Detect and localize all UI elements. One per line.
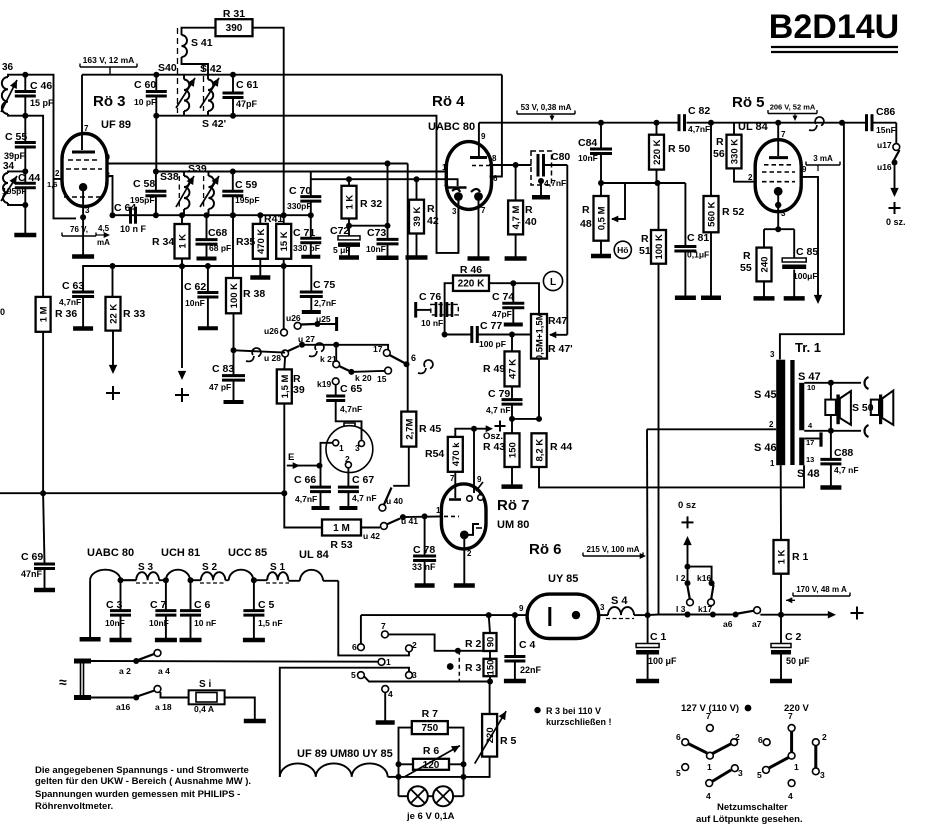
R47 wiper arrow bbox=[550, 334, 567, 336]
svg-text:1: 1 bbox=[770, 459, 775, 468]
svg-text:3: 3 bbox=[738, 768, 743, 778]
svg-text:S40: S40 bbox=[158, 62, 177, 74]
contact 6 and 17 bbox=[404, 361, 410, 367]
svg-text:100 pF: 100 pF bbox=[479, 339, 506, 349]
svg-text:UF 89 UM80 UY 85: UF 89 UM80 UY 85 bbox=[297, 748, 393, 760]
svg-text:6: 6 bbox=[411, 353, 416, 363]
svg-text:C 65: C 65 bbox=[340, 383, 362, 395]
svg-text:C 70: C 70 bbox=[289, 185, 311, 197]
svg-text:5: 5 bbox=[351, 670, 356, 680]
svg-text:C 79: C 79 bbox=[488, 388, 510, 400]
resistor R31 bbox=[216, 19, 253, 36]
jack symbol u28 bbox=[246, 356, 254, 361]
svg-text:34: 34 bbox=[3, 161, 15, 172]
svg-text:u17: u17 bbox=[877, 140, 892, 150]
svg-text:C 60: C 60 bbox=[134, 79, 156, 91]
svg-text:10nF: 10nF bbox=[149, 618, 169, 628]
wire row 266 bbox=[113, 265, 312, 267]
Ro3 grids bbox=[68, 159, 100, 161]
capacitor C67 bbox=[347, 468, 349, 487]
svg-text:R41: R41 bbox=[264, 213, 283, 225]
svg-text:UL 84: UL 84 bbox=[738, 121, 769, 133]
switch a6 a7 bbox=[733, 612, 739, 618]
dashed gang S38 bbox=[178, 176, 180, 209]
svg-text:2: 2 bbox=[769, 420, 774, 429]
resistor R3 bbox=[484, 659, 497, 676]
coil S4 bbox=[599, 614, 608, 616]
svg-text:3: 3 bbox=[781, 209, 786, 218]
svg-text:1: 1 bbox=[386, 657, 391, 667]
resistor R33 bbox=[112, 266, 114, 297]
capacitor C84 bbox=[598, 120, 604, 126]
Ro4 grid2 bbox=[453, 179, 458, 186]
tube Ro7 UM80 bbox=[441, 484, 486, 549]
svg-text:C 75: C 75 bbox=[313, 279, 335, 291]
svg-text:C 81: C 81 bbox=[687, 232, 709, 244]
resistor R2 bbox=[489, 615, 490, 633]
svg-text:2: 2 bbox=[444, 179, 449, 188]
svg-text:0 sz: 0 sz bbox=[678, 500, 696, 511]
tube Ro5 UL84 bbox=[755, 140, 801, 212]
wire R31 left bbox=[182, 28, 216, 35]
resistor R50 bbox=[654, 120, 660, 126]
UL84 heater bump bbox=[288, 580, 300, 582]
Ro4 cathodes bbox=[452, 189, 460, 192]
svg-text:S i: S i bbox=[199, 679, 211, 690]
svg-text:C 6: C 6 bbox=[194, 599, 211, 611]
wire R51 drop and bus bbox=[659, 264, 688, 615]
svg-text:3: 3 bbox=[452, 207, 457, 216]
svg-text:k17: k17 bbox=[698, 604, 712, 614]
svg-text:6: 6 bbox=[352, 642, 357, 652]
coil S1 bbox=[267, 572, 288, 580]
Ro5 cathode bbox=[774, 187, 783, 196]
svg-text:51: 51 bbox=[639, 245, 651, 257]
svg-text:1 K: 1 K bbox=[777, 549, 788, 564]
svg-text:7: 7 bbox=[781, 130, 786, 139]
svg-text:220 K: 220 K bbox=[458, 279, 485, 290]
svg-text:auf Lötpunkte gesehen.: auf Lötpunkte gesehen. bbox=[696, 814, 803, 825]
wire bus 163V bbox=[82, 74, 502, 76]
svg-text:1: 1 bbox=[436, 506, 441, 515]
svg-text:C 62: C 62 bbox=[184, 281, 206, 293]
svg-text:195pF: 195pF bbox=[235, 195, 260, 205]
svg-text:C 61: C 61 bbox=[236, 79, 258, 91]
capacitor C1 electrolytic bbox=[645, 612, 651, 618]
svg-text:C 83: C 83 bbox=[212, 363, 234, 375]
svg-text:R: R bbox=[743, 250, 751, 262]
Ro7 pin1 row bbox=[403, 515, 442, 518]
svg-text:k 21: k 21 bbox=[320, 354, 337, 364]
capacitor C2 electrolytic bbox=[780, 615, 782, 644]
wire contact2 from UL84 chain bbox=[338, 581, 409, 656]
R48 wiper bbox=[601, 183, 625, 219]
svg-text:R 31: R 31 bbox=[223, 8, 245, 20]
lamp rails bbox=[399, 728, 412, 797]
svg-text:UY 85: UY 85 bbox=[548, 573, 578, 585]
tube Ro4 UABC80 bbox=[446, 142, 491, 210]
svg-text:2,7nF: 2,7nF bbox=[314, 298, 336, 308]
svg-text:5: 5 bbox=[676, 768, 681, 778]
wire R38 u28 bbox=[234, 350, 285, 352]
R5 arrow bbox=[475, 711, 506, 763]
svg-text:Die angegebenen Spannungs -: Die angegebenen Spannungs - und Stromwer… bbox=[35, 765, 249, 776]
svg-text:C73: C73 bbox=[367, 227, 386, 239]
svg-text:R 34: R 34 bbox=[152, 236, 174, 248]
svg-text:3: 3 bbox=[770, 350, 775, 359]
svg-text:Spannungen wurden gemessen: Spannungen wurden gemessen mit PHILIPS - bbox=[35, 789, 240, 800]
svg-text:6: 6 bbox=[758, 735, 763, 745]
svg-text:10 n F: 10 n F bbox=[120, 224, 147, 234]
resistor R51 bbox=[658, 183, 660, 230]
svg-text:C86: C86 bbox=[876, 106, 895, 118]
resistor R34 bbox=[181, 215, 183, 224]
svg-text:R35: R35 bbox=[236, 236, 255, 248]
svg-text:R 38: R 38 bbox=[243, 288, 265, 300]
coil S41 bbox=[182, 35, 188, 57]
switch k19 C65 bbox=[332, 378, 339, 385]
svg-text:2: 2 bbox=[748, 173, 753, 182]
wire R47 down bbox=[538, 359, 540, 419]
svg-text:R 44: R 44 bbox=[550, 441, 572, 453]
dashed gang S39 bbox=[203, 176, 205, 209]
svg-text:S 3: S 3 bbox=[138, 562, 153, 573]
svg-text:47 pF: 47 pF bbox=[209, 382, 231, 392]
heater bus left bbox=[361, 614, 527, 616]
svg-text:1 K: 1 K bbox=[345, 195, 356, 210]
note R3 110V bbox=[534, 707, 540, 713]
svg-text:B2D14U: B2D14U bbox=[769, 8, 899, 46]
svg-text:C68: C68 bbox=[208, 227, 227, 239]
svg-text:UL 84: UL 84 bbox=[299, 549, 330, 561]
Ro3 plate bbox=[81, 75, 83, 150]
wire R36 down to bus493 bbox=[42, 332, 44, 493]
svg-text:2,7M: 2,7M bbox=[404, 418, 415, 439]
wire contact1 row bbox=[378, 659, 385, 666]
capacitor C5 bbox=[253, 580, 255, 610]
svg-text:48: 48 bbox=[580, 218, 592, 230]
svg-text:100 K: 100 K bbox=[229, 283, 240, 308]
wire grid wire y179 bbox=[311, 178, 453, 180]
svg-text:10nF: 10nF bbox=[578, 153, 598, 163]
svg-text:220 K: 220 K bbox=[652, 139, 663, 164]
wire bus493 bbox=[0, 492, 284, 494]
Osz plus arrow bbox=[474, 428, 487, 430]
svg-text:S 45: S 45 bbox=[754, 389, 777, 401]
wire R45 to u40 bbox=[393, 447, 409, 486]
svg-text:330 pF: 330 pF bbox=[293, 243, 320, 253]
svg-text:15 K: 15 K bbox=[279, 231, 290, 251]
svg-text:1 M: 1 M bbox=[333, 523, 350, 534]
Hoe circle bbox=[614, 241, 631, 258]
svg-text:Röhrenvoltmeter.: Röhrenvoltmeter. bbox=[35, 801, 113, 812]
resistor R7 bbox=[412, 721, 448, 734]
wire a2 row cont bbox=[161, 658, 379, 661]
svg-text:R 36: R 36 bbox=[55, 308, 77, 320]
wire Tr1 primary top to HT bbox=[780, 123, 844, 360]
svg-text:4,7nF: 4,7nF bbox=[544, 178, 566, 188]
svg-text:R 5: R 5 bbox=[500, 735, 517, 747]
Ro4 dashes bbox=[472, 165, 489, 167]
wire R39 down bus493 bbox=[283, 404, 285, 494]
svg-text:Osz.: Osz. bbox=[483, 431, 503, 442]
svg-text:750: 750 bbox=[421, 723, 438, 734]
svg-text:Rö 4: Rö 4 bbox=[432, 93, 465, 110]
svg-text:C84: C84 bbox=[578, 137, 597, 149]
svg-text:2: 2 bbox=[412, 640, 417, 650]
capacitor C81 bbox=[684, 183, 686, 247]
svg-text:UCH 81: UCH 81 bbox=[161, 547, 200, 559]
capacitor C4 bbox=[514, 615, 516, 656]
svg-text:R47: R47 bbox=[548, 315, 567, 327]
svg-text:a6: a6 bbox=[723, 619, 733, 629]
svg-text:UM 80: UM 80 bbox=[497, 519, 529, 531]
wire HT bus bbox=[479, 122, 679, 124]
svg-text:S 4: S 4 bbox=[611, 595, 628, 607]
Ro4 pin8 wire bbox=[489, 164, 532, 166]
svg-text:S 48: S 48 bbox=[797, 468, 820, 480]
svg-text:C88: C88 bbox=[834, 447, 853, 459]
switch u17 u16 bbox=[895, 123, 897, 144]
svg-text:a 18: a 18 bbox=[155, 702, 172, 712]
svg-text:53 V, 0,38 mA: 53 V, 0,38 mA bbox=[521, 103, 572, 112]
svg-text:56: 56 bbox=[713, 148, 725, 160]
Ro4 pin7 ground bbox=[478, 200, 480, 257]
wire plus arrow right bbox=[778, 612, 784, 618]
svg-text:C80: C80 bbox=[551, 151, 570, 163]
capacitor C80 bbox=[531, 151, 552, 185]
svg-text:3: 3 bbox=[85, 206, 90, 215]
wire R31 right drop bbox=[253, 28, 284, 224]
svg-text:R 49: R 49 bbox=[483, 363, 505, 375]
svg-text:C 3: C 3 bbox=[106, 599, 123, 611]
wire row183 bbox=[601, 182, 685, 184]
svg-text:C 69: C 69 bbox=[21, 551, 43, 563]
svg-text:R 3: R 3 bbox=[465, 662, 482, 674]
wire pin6 down bbox=[566, 165, 568, 335]
capacitor C70 bbox=[310, 172, 312, 197]
svg-text:0 sz.: 0 sz. bbox=[886, 217, 906, 227]
coil S38 bbox=[184, 176, 190, 209]
wire R56 to pin2 bbox=[734, 168, 756, 181]
capacitor C76 bbox=[431, 304, 459, 315]
capacitor C55 bbox=[24, 116, 26, 143]
svg-text:Rö 6: Rö 6 bbox=[529, 541, 562, 558]
wire secondary top bbox=[804, 382, 861, 384]
label 206V bbox=[767, 110, 769, 114]
svg-text:je 6 V 0,1A: je 6 V 0,1A bbox=[406, 811, 455, 822]
capacitor C64 bbox=[129, 207, 132, 224]
Ro5 plate pin7 bbox=[775, 120, 781, 126]
wire R46 left bbox=[445, 283, 453, 334]
svg-text:S39: S39 bbox=[188, 163, 207, 175]
capacitor C59 bbox=[230, 169, 236, 175]
label 215V bbox=[582, 553, 584, 557]
svg-text:Netzumschalter: Netzumschalter bbox=[717, 802, 788, 813]
resistor R54 bbox=[448, 437, 463, 472]
svg-text:47nF: 47nF bbox=[21, 569, 43, 579]
svg-text:u 40: u 40 bbox=[386, 496, 403, 506]
capacitor C44 bbox=[24, 171, 26, 183]
svg-text:8: 8 bbox=[492, 154, 497, 163]
svg-text:215 V, 100 mA: 215 V, 100 mA bbox=[586, 545, 639, 554]
capacitor C85 electrolytic bbox=[793, 229, 795, 258]
svg-text:S 2: S 2 bbox=[202, 562, 217, 573]
capacitor C73 bbox=[387, 164, 389, 226]
resistor R44 bbox=[532, 433, 547, 467]
capacitor C60 bbox=[153, 72, 159, 78]
svg-text:195pF: 195pF bbox=[2, 186, 27, 196]
svg-text:1,5 M: 1,5 M bbox=[280, 374, 291, 398]
svg-text:a7: a7 bbox=[752, 619, 762, 629]
capacitor C77 series bbox=[445, 334, 472, 336]
svg-text:R: R bbox=[716, 136, 724, 148]
lamp 1 bbox=[399, 795, 409, 797]
wire bus 615 right bbox=[648, 614, 659, 617]
svg-text:u26: u26 bbox=[264, 326, 279, 336]
svg-text:150: 150 bbox=[508, 442, 519, 458]
lamp 2 bbox=[428, 795, 433, 797]
svg-text:10nF: 10nF bbox=[185, 298, 205, 308]
Ro7 pin7 bbox=[454, 472, 456, 498]
svg-text:4,7nF: 4,7nF bbox=[340, 404, 362, 414]
wire grid2 Ro3 bbox=[25, 75, 62, 179]
svg-text:C 59: C 59 bbox=[235, 179, 257, 191]
label 3mA bbox=[805, 162, 807, 166]
switch k16 k17 bbox=[688, 567, 712, 584]
svg-text:4,7nF: 4,7nF bbox=[295, 494, 317, 504]
svg-text:10: 10 bbox=[807, 383, 815, 392]
wire contact3 from heater bracket bbox=[280, 668, 409, 777]
jack symbol anode bbox=[809, 125, 817, 130]
wire R32 bottom bbox=[349, 219, 388, 226]
svg-text:5: 5 bbox=[757, 770, 762, 780]
svg-text:C 77: C 77 bbox=[480, 320, 502, 332]
svg-text:68 pF: 68 pF bbox=[209, 243, 231, 253]
wire u26 drop bbox=[283, 266, 285, 329]
svg-text:R 53: R 53 bbox=[330, 539, 352, 551]
label 76V 4,5mA bbox=[61, 233, 63, 237]
svg-text:k19: k19 bbox=[317, 379, 331, 389]
svg-text:100 K: 100 K bbox=[654, 234, 665, 259]
svg-text:R 6: R 6 bbox=[423, 745, 440, 757]
svg-text:R 3 bei 110 V: R 3 bei 110 V bbox=[546, 706, 601, 716]
svg-text:R 50: R 50 bbox=[668, 143, 690, 155]
svg-text:4: 4 bbox=[706, 791, 711, 801]
svg-text:42: 42 bbox=[427, 215, 439, 227]
wire bus A pin9 bbox=[106, 163, 408, 165]
svg-text:33 nF: 33 nF bbox=[412, 562, 436, 572]
contact circles 2 3 bbox=[406, 645, 413, 652]
svg-text:C 5: C 5 bbox=[258, 599, 275, 611]
svg-text:k16: k16 bbox=[697, 573, 711, 583]
svg-text:R 52: R 52 bbox=[722, 206, 744, 218]
coil S40 bbox=[184, 80, 189, 112]
svg-text:C 7: C 7 bbox=[150, 599, 167, 611]
resistor R47 bbox=[531, 314, 547, 359]
svg-text:2: 2 bbox=[822, 732, 827, 742]
capacitor C86 series bbox=[839, 120, 845, 126]
svg-text:C 74: C 74 bbox=[492, 291, 514, 303]
svg-text:4,7 nF: 4,7 nF bbox=[834, 465, 859, 475]
svg-text:R 1: R 1 bbox=[792, 551, 809, 563]
svg-text:4,7 nF: 4,7 nF bbox=[352, 493, 377, 503]
svg-text:R 7: R 7 bbox=[422, 708, 439, 720]
svg-text:170 V, 48 m A: 170 V, 48 m A bbox=[796, 585, 847, 594]
svg-text:13: 13 bbox=[806, 455, 814, 464]
resistor R42 bbox=[416, 179, 418, 200]
resistor R43 bbox=[511, 419, 513, 433]
svg-text:10 pF: 10 pF bbox=[134, 97, 156, 107]
svg-text:S 41: S 41 bbox=[191, 37, 213, 49]
svg-text:330 K: 330 K bbox=[730, 139, 741, 164]
svg-text:3: 3 bbox=[355, 443, 360, 453]
resistor R53 bbox=[322, 520, 361, 536]
svg-text:C72: C72 bbox=[330, 225, 349, 237]
svg-text:C 64: C 64 bbox=[114, 202, 136, 214]
svg-text:R 46: R 46 bbox=[460, 264, 482, 276]
svg-text:R: R bbox=[427, 203, 435, 215]
svg-text:C 55: C 55 bbox=[5, 131, 27, 143]
svg-text:R 47': R 47' bbox=[548, 343, 573, 355]
svg-text:10 nF: 10 nF bbox=[194, 618, 216, 628]
svg-text:7: 7 bbox=[788, 711, 793, 721]
svg-text:C 58: C 58 bbox=[133, 178, 155, 190]
svg-text:76 V,: 76 V, bbox=[70, 225, 88, 234]
svg-text:R 33: R 33 bbox=[123, 308, 145, 320]
capacitor C7 bbox=[165, 580, 167, 610]
svg-text:22nF: 22nF bbox=[520, 665, 542, 675]
svg-text:50 μF: 50 μF bbox=[786, 656, 810, 666]
svg-text:330pF: 330pF bbox=[287, 201, 312, 211]
svg-text:163 V, 12 mA: 163 V, 12 mA bbox=[83, 55, 135, 65]
resistor R40 bbox=[515, 165, 517, 201]
capacitor C82 series bbox=[678, 114, 681, 131]
svg-text:UABC 80: UABC 80 bbox=[87, 547, 134, 559]
svg-text:15 pF: 15 pF bbox=[30, 98, 54, 108]
svg-text:1: 1 bbox=[442, 163, 447, 172]
coil S42 bbox=[208, 80, 213, 112]
svg-text:a 4: a 4 bbox=[158, 666, 170, 676]
label 163V 12mA bbox=[79, 64, 81, 68]
wire R44 down to right bbox=[539, 465, 804, 487]
wire S41-S42 bbox=[182, 57, 209, 80]
svg-text:10nF: 10nF bbox=[105, 618, 125, 628]
svg-text:3: 3 bbox=[820, 770, 825, 780]
resistor R48 bbox=[594, 196, 609, 241]
svg-text:mA: mA bbox=[97, 238, 110, 247]
svg-text:3 mA: 3 mA bbox=[813, 154, 833, 163]
svg-text:0,5M+1,5M: 0,5M+1,5M bbox=[535, 312, 546, 360]
capacitor C69 bbox=[43, 493, 44, 563]
socket circle bbox=[326, 426, 373, 473]
svg-text:0,4 A: 0,4 A bbox=[194, 704, 214, 714]
svg-text:9: 9 bbox=[802, 165, 807, 174]
svg-text:4,5: 4,5 bbox=[98, 224, 110, 233]
capacitor C6 bbox=[190, 580, 192, 610]
svg-text:40: 40 bbox=[525, 216, 537, 228]
wire bus115 left bbox=[25, 116, 43, 297]
svg-text:100μF: 100μF bbox=[793, 271, 818, 281]
svg-text:Tr. 1: Tr. 1 bbox=[795, 340, 821, 355]
resistor R39 bbox=[283, 357, 286, 370]
svg-text:15nF: 15nF bbox=[876, 125, 896, 135]
svg-text:R: R bbox=[525, 204, 533, 216]
capacitor C71 bbox=[310, 215, 312, 238]
R6 arrow bbox=[405, 746, 460, 777]
svg-text:C 1: C 1 bbox=[650, 631, 667, 643]
svg-text:206 V, 52 mA: 206 V, 52 mA bbox=[770, 103, 816, 112]
